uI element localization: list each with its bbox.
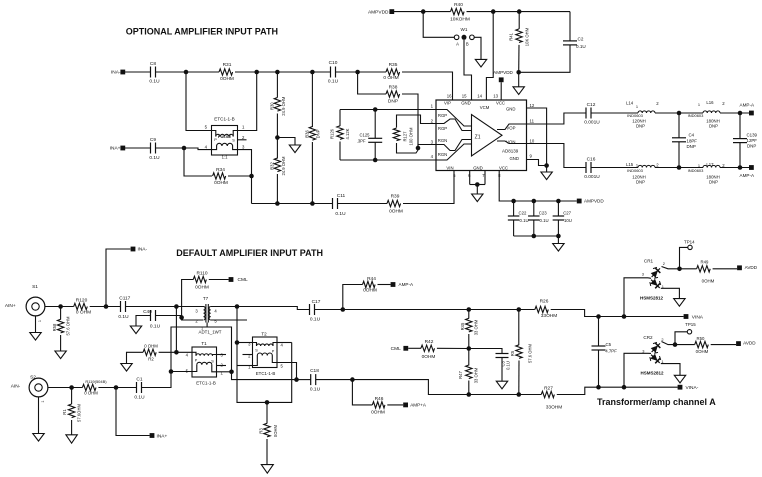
svg-text:2: 2	[661, 337, 663, 342]
svg-text:11: 11	[530, 118, 535, 123]
svg-text:INA-: INA-	[138, 247, 148, 253]
svg-text:IND0603: IND0603	[688, 113, 705, 118]
svg-text:L16: L16	[706, 100, 714, 105]
svg-text:0OHM: 0OHM	[422, 354, 436, 360]
svg-text:VIN: VIN	[446, 165, 453, 170]
svg-text:C40: C40	[143, 309, 152, 315]
svg-text:0OHM: 0OHM	[273, 424, 278, 437]
svg-text:HSMS2812: HSMS2812	[640, 370, 664, 375]
svg-text:DNP: DNP	[709, 124, 718, 129]
svg-text:.3PF: .3PF	[357, 138, 366, 143]
svg-text:C139: C139	[747, 133, 758, 138]
svg-text:0 OHM: 0 OHM	[383, 75, 398, 81]
svg-text:13: 13	[493, 93, 498, 98]
svg-text:S: S	[232, 139, 235, 143]
svg-text:AMP-A: AMP-A	[740, 103, 755, 108]
svg-text:0 OHM: 0 OHM	[76, 310, 91, 316]
svg-text:DNP: DNP	[315, 129, 320, 138]
svg-text:0.1U: 0.1U	[335, 211, 346, 217]
svg-text:57.6OHM: 57.6OHM	[76, 404, 81, 422]
svg-text:AMPVDD: AMPVDD	[368, 9, 389, 15]
svg-text:W1: W1	[461, 27, 468, 32]
svg-text:R36: R36	[304, 129, 309, 137]
svg-text:R34: R34	[216, 167, 225, 173]
svg-text:C2: C2	[578, 36, 584, 41]
svg-text:120NH: 120NH	[632, 174, 645, 179]
svg-text:P: P	[272, 349, 275, 353]
svg-text:0.1U: 0.1U	[540, 218, 549, 223]
svg-text:R42: R42	[425, 339, 434, 345]
svg-text:1: 1	[636, 104, 638, 109]
svg-text:1: 1	[662, 284, 664, 289]
svg-text:GND: GND	[473, 165, 483, 170]
svg-text:C27: C27	[563, 211, 571, 216]
svg-text:0.1U: 0.1U	[520, 218, 529, 223]
svg-text:R45: R45	[460, 322, 465, 330]
svg-text:PULSE: PULSE	[218, 134, 232, 139]
svg-text:0 OHM: 0 OHM	[144, 344, 158, 349]
svg-text:3: 3	[642, 348, 644, 353]
svg-text:R120: R120	[76, 297, 88, 303]
svg-text:0.1U: 0.1U	[149, 155, 160, 161]
svg-text:R35: R35	[389, 62, 398, 68]
svg-text:DEFAULT AMPLIFIER INPUT PATH: DEFAULT AMPLIFIER INPUT PATH	[176, 248, 323, 258]
svg-text:R49: R49	[701, 260, 709, 265]
svg-text:C22: C22	[519, 211, 527, 216]
svg-text:C1: C1	[136, 376, 142, 382]
svg-text:2: 2	[663, 261, 665, 266]
svg-text:180NH: 180NH	[706, 174, 719, 179]
svg-text:INA-: INA-	[111, 70, 121, 76]
svg-text:0.1U: 0.1U	[150, 323, 161, 329]
svg-text:CR2: CR2	[643, 335, 653, 340]
svg-text:C16: C16	[587, 157, 596, 163]
svg-text:C4: C4	[689, 133, 695, 138]
svg-text:R38: R38	[389, 85, 398, 91]
svg-text:HSMS2812: HSMS2812	[640, 295, 664, 300]
svg-text:4.12K: 4.12K	[345, 128, 350, 139]
svg-text:R31: R31	[223, 62, 232, 68]
svg-text:10K OHM: 10K OHM	[524, 27, 529, 46]
svg-text:T7: T7	[203, 296, 209, 301]
svg-text:0OHM: 0OHM	[389, 208, 403, 214]
svg-text:33 OHM: 33 OHM	[473, 367, 478, 383]
svg-text:0OHM: 0OHM	[371, 409, 385, 415]
svg-text:0.1U: 0.1U	[149, 79, 160, 85]
svg-text:T2: T2	[261, 332, 267, 337]
svg-text:DNP: DNP	[636, 180, 645, 185]
svg-text:VCM: VCM	[480, 105, 490, 110]
svg-text:L17: L17	[706, 162, 714, 167]
svg-text:DNP: DNP	[709, 180, 718, 185]
svg-text:C18: C18	[310, 368, 319, 374]
svg-text:C8: C8	[150, 61, 156, 67]
svg-text:AIN+: AIN+	[5, 303, 16, 309]
svg-text:0OHM: 0OHM	[696, 349, 709, 354]
svg-text:R110: R110	[196, 271, 207, 277]
svg-text:0OHM: 0OHM	[363, 288, 377, 294]
svg-text:AMP+A: AMP+A	[410, 403, 427, 408]
svg-text:DNP: DNP	[747, 144, 756, 149]
svg-text:0.1U: 0.1U	[134, 395, 145, 401]
svg-text:R126: R126	[329, 128, 334, 139]
svg-text:33OHM: 33OHM	[541, 313, 558, 319]
svg-text:1: 1	[38, 320, 42, 322]
svg-text:IND0603: IND0603	[627, 113, 644, 118]
svg-text:R50: R50	[697, 336, 705, 341]
svg-text:R26: R26	[540, 298, 549, 304]
svg-text:S: S	[211, 359, 214, 363]
svg-text:T1: T1	[201, 341, 207, 346]
svg-text:S: S	[255, 349, 258, 353]
svg-text:AVDD: AVDD	[745, 265, 758, 270]
svg-text:B: B	[466, 41, 469, 46]
svg-text:C125: C125	[359, 132, 370, 137]
svg-text:10: 10	[530, 138, 535, 143]
svg-text:P: P	[195, 358, 198, 362]
svg-text:ETC1-1-B: ETC1-1-B	[256, 371, 276, 376]
svg-text:0.001U: 0.001U	[584, 120, 600, 126]
svg-text:R127: R127	[402, 131, 407, 142]
svg-text:Z1: Z1	[475, 134, 481, 140]
svg-text:14: 14	[477, 93, 482, 98]
svg-text:VIP: VIP	[444, 101, 451, 106]
svg-text:AMPVDD: AMPVDD	[584, 199, 604, 204]
svg-text:AMP-A: AMP-A	[740, 173, 755, 178]
svg-text:R5: R5	[510, 350, 515, 356]
svg-text:C11: C11	[337, 193, 346, 199]
svg-text:33 OHM: 33 OHM	[473, 319, 478, 335]
svg-text:C10: C10	[329, 60, 338, 66]
svg-text:R39: R39	[391, 194, 400, 200]
svg-text:GND: GND	[506, 107, 516, 112]
svg-text:0.1U: 0.1U	[506, 361, 511, 370]
svg-text:Transformer/amp channel A: Transformer/amp channel A	[597, 397, 716, 407]
svg-text:VCC: VCC	[499, 165, 508, 170]
svg-text:10U: 10U	[564, 218, 572, 223]
svg-text:0.1U: 0.1U	[576, 44, 586, 49]
svg-text:C5: C5	[606, 342, 612, 347]
svg-text:R41: R41	[508, 32, 513, 40]
svg-text:ETC1-1-B: ETC1-1-B	[196, 380, 216, 385]
svg-text:0 OHM: 0 OHM	[84, 390, 98, 395]
svg-text:R2: R2	[148, 357, 154, 362]
svg-text:0.1U: 0.1U	[328, 79, 339, 85]
svg-text:ADT1_1WT: ADT1_1WT	[199, 330, 222, 335]
svg-text:C117: C117	[119, 295, 130, 301]
svg-text:INA+: INA+	[157, 433, 168, 439]
svg-text:INA+: INA+	[110, 146, 121, 152]
svg-text:R119(504B): R119(504B)	[85, 379, 107, 384]
svg-text:R47: R47	[458, 370, 463, 378]
svg-text:R40: R40	[454, 2, 463, 8]
svg-text:R58: R58	[52, 323, 57, 331]
svg-text:DNP: DNP	[687, 144, 696, 149]
svg-text:L15: L15	[626, 162, 634, 167]
svg-text:CML: CML	[391, 346, 401, 352]
svg-text:0OHM: 0OHM	[702, 279, 715, 284]
svg-text:0.1U: 0.1U	[118, 314, 129, 320]
svg-text:VINA: VINA	[692, 314, 704, 320]
svg-text:1: 1	[41, 400, 45, 402]
svg-text:C9: C9	[150, 137, 156, 143]
svg-text:CR1: CR1	[644, 259, 654, 264]
svg-text:GND: GND	[461, 101, 471, 106]
svg-text:TP15: TP15	[685, 322, 696, 327]
svg-text:0.001U: 0.001U	[584, 174, 600, 180]
svg-text:R46: R46	[375, 396, 384, 402]
svg-text:IND0603: IND0603	[627, 168, 644, 173]
svg-text:R30: R30	[269, 102, 274, 110]
svg-text:C17: C17	[312, 299, 321, 305]
svg-text:TP14: TP14	[684, 240, 695, 245]
svg-text:0OHM: 0OHM	[220, 76, 234, 82]
svg-text:C12: C12	[587, 102, 596, 108]
svg-text:RGN: RGN	[438, 152, 448, 157]
svg-text:AMP-A: AMP-A	[399, 282, 414, 287]
svg-text:AD8139: AD8139	[502, 148, 519, 153]
svg-text:R27: R27	[544, 385, 553, 391]
svg-text:57.6 OHM: 57.6 OHM	[65, 316, 70, 336]
svg-text:12PF: 12PF	[747, 138, 758, 143]
svg-text:RGN: RGN	[438, 138, 448, 143]
svg-text:RGP: RGP	[438, 126, 447, 131]
svg-text:10KOHM: 10KOHM	[450, 16, 470, 22]
svg-text:AVDD: AVDD	[743, 340, 756, 345]
svg-text:R3: R3	[258, 428, 263, 434]
svg-text:C23: C23	[539, 211, 547, 216]
svg-text:3: 3	[642, 272, 644, 277]
svg-text:R44: R44	[367, 276, 376, 282]
svg-text:16: 16	[447, 93, 452, 98]
svg-text:57.6 OHM: 57.6 OHM	[527, 343, 532, 363]
svg-text:VINA-: VINA-	[686, 385, 699, 391]
svg-text:ETC1-1-B: ETC1-1-B	[214, 117, 234, 122]
svg-text:L14: L14	[626, 100, 634, 105]
svg-text:CML: CML	[238, 277, 248, 283]
svg-text:AIN-: AIN-	[11, 384, 21, 390]
svg-text:AMPVDD: AMPVDD	[493, 70, 513, 75]
svg-text:24.9 OHM: 24.9 OHM	[281, 156, 286, 176]
svg-text:P: P	[214, 138, 217, 142]
svg-text:VCC: VCC	[496, 101, 505, 106]
svg-text:0OHM: 0OHM	[195, 284, 209, 290]
svg-text:1: 1	[661, 359, 663, 364]
svg-text:R32: R32	[269, 161, 274, 169]
svg-text:A: A	[456, 41, 459, 46]
svg-text:DNP: DNP	[636, 124, 645, 129]
svg-text:R1: R1	[62, 409, 67, 415]
svg-text:RGP: RGP	[438, 113, 447, 118]
svg-text:4.7PF: 4.7PF	[605, 349, 617, 354]
svg-text:1: 1	[698, 102, 700, 107]
svg-text:IND0603: IND0603	[688, 168, 705, 173]
svg-text:12: 12	[530, 103, 535, 108]
svg-text:0.1U: 0.1U	[310, 316, 321, 322]
svg-text:S1: S1	[32, 284, 38, 290]
svg-text:15: 15	[462, 93, 467, 98]
svg-text:24.9 OHM: 24.9 OHM	[281, 96, 286, 116]
svg-text:18PF: 18PF	[687, 139, 698, 144]
svg-text:33OHM: 33OHM	[546, 404, 563, 410]
svg-text:0OHM: 0OHM	[214, 180, 228, 186]
svg-text:0.1U: 0.1U	[310, 387, 321, 393]
svg-text:OPTIONAL AMPLIFIER INPUT PATH: OPTIONAL AMPLIFIER INPUT PATH	[126, 26, 278, 36]
svg-text:GND: GND	[509, 156, 519, 161]
svg-text:1: 1	[636, 162, 638, 167]
svg-text:1:1: 1:1	[222, 154, 228, 159]
svg-text:100 OHM: 100 OHM	[408, 127, 413, 145]
svg-text:DNP: DNP	[388, 99, 398, 105]
